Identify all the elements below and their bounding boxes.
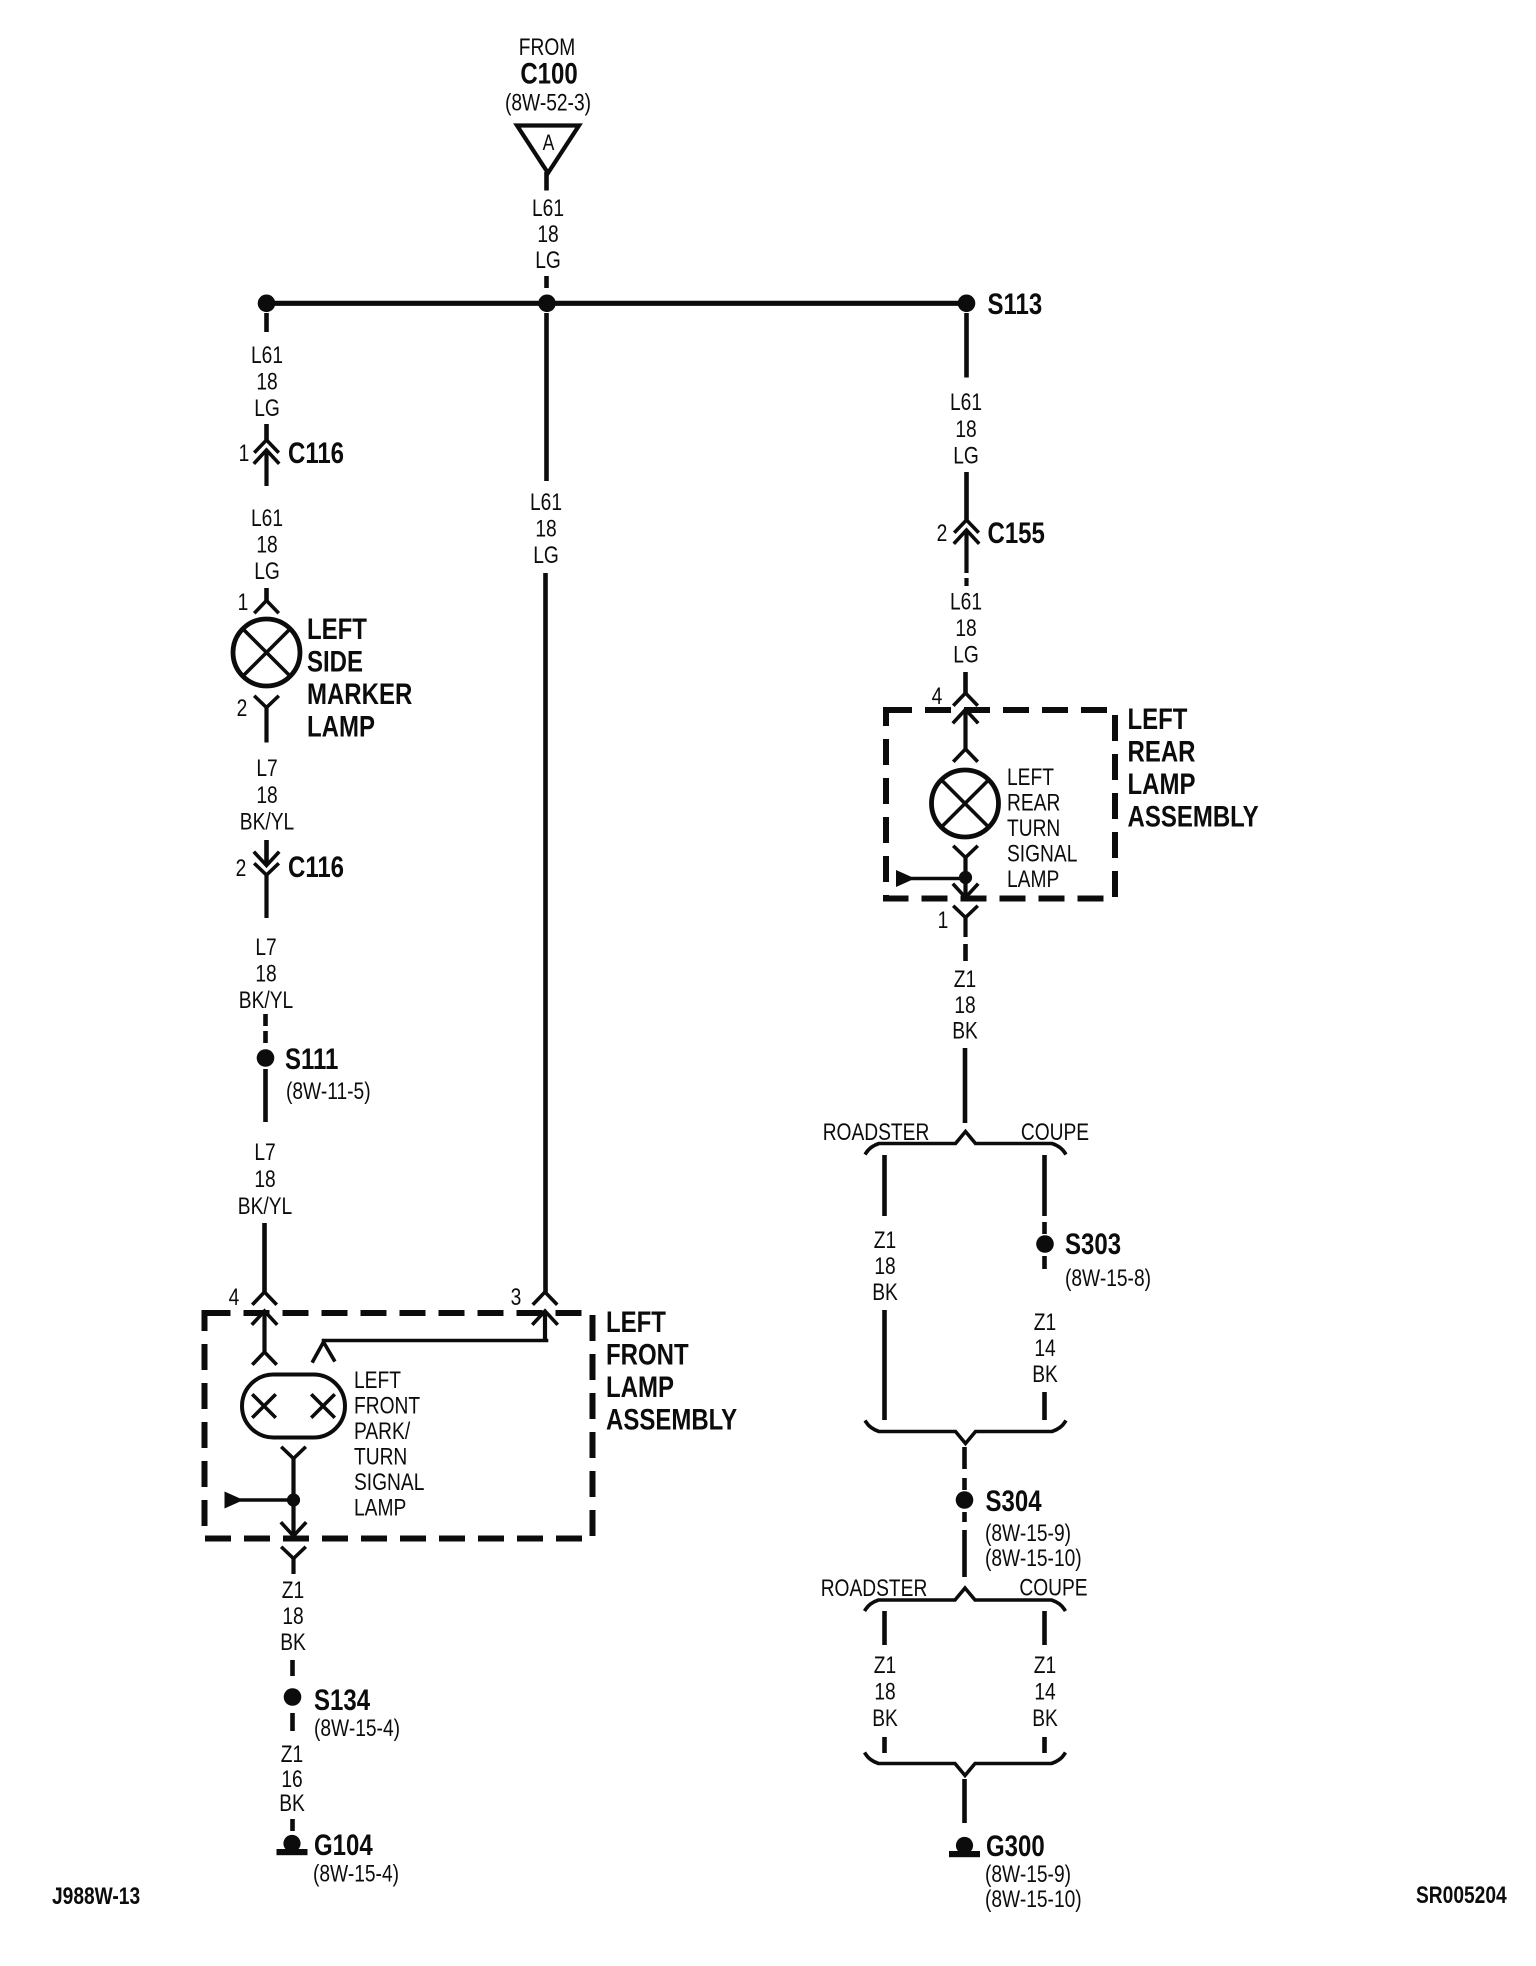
svg-text:S111: S111 [285,1041,338,1075]
svg-text:G300: G300 [986,1828,1045,1862]
ground G104 (8W-15-4) [277,1827,400,1887]
wire label Z1 18 BK (left) [280,1576,306,1656]
lamp - LEFT FRONT PARK/TURN SIGNAL LAMP (dual filament) [242,1375,345,1438]
svg-text:L61: L61 [950,587,982,615]
wire dash above splice S134 [290,1660,295,1676]
svg-text:(8W-15-9): (8W-15-9) [985,1860,1071,1888]
wire label L7 18 BK/YL (middle) [239,933,293,1014]
wire roadster branch lower segment [882,1310,887,1420]
svg-text:LEFT: LEFT [307,611,367,645]
wire below splice S111 [263,1069,268,1122]
label LEFT REAR TURN SIGNAL LAMP [1007,763,1077,893]
svg-text:18: 18 [874,1252,895,1280]
wire from merge to splice S304 [962,1447,967,1490]
wire label Z1 14 BK (coupe lower) [1032,1651,1058,1732]
ground arrow inside left front lamp assembly [225,1492,288,1509]
node - centre junction dot under C100 feed [538,295,556,313]
svg-text:A: A [543,131,555,155]
svg-text:(8W-15-4): (8W-15-4) [314,1714,400,1742]
svg-text:L61: L61 [530,488,562,516]
wire to left front lamp pin 4 [262,1223,267,1292]
svg-text:S303: S303 [1065,1226,1121,1260]
internal terminal fork below rear turn signal lamp [955,847,977,878]
svg-text:LG: LG [533,541,559,569]
svg-text:BK/YL: BK/YL [240,807,294,835]
svg-text:18: 18 [537,220,558,248]
svg-text:S134: S134 [314,1682,370,1716]
svg-text:(8W-11-5): (8W-11-5) [286,1077,371,1105]
svg-text:(8W-15-10): (8W-15-10) [985,1885,1082,1913]
svg-text:BK: BK [1032,1360,1058,1388]
svg-text:LAMP: LAMP [307,709,375,743]
wire dash above ground G104 [290,1819,295,1831]
wire stub below left node [264,313,269,332]
svg-text:BK/YL: BK/YL [238,1192,292,1220]
wire into connector C116 pin 1 [264,424,269,440]
svg-text:LG: LG [254,394,280,422]
wire - horizontal bus from left branch to S113 [267,301,967,306]
svg-text:G104: G104 [314,1827,373,1861]
svg-text:L7: L7 [255,933,276,961]
pin 4 terminal fork of left rear lamp assembly [932,682,977,710]
wire label L61 18 LG (right column upper) [950,388,982,469]
svg-text:18: 18 [254,1165,275,1193]
svg-text:LEFT: LEFT [354,1366,401,1394]
wire label Z1 14 BK (coupe upper) [1032,1308,1058,1388]
label ROADSTER (lower split) [821,1574,928,1602]
wire label L7 18 BK/YL (upper) [240,754,294,835]
wire from merge to ground G300 [962,1779,967,1823]
label ROADSTER (upper split) [823,1118,930,1146]
wire stub above bus node [544,276,549,288]
wire label L61 18 LG (left column upper) [251,341,283,422]
component box - LEFT REAR LAMP ASSEMBLY (dashed) [886,710,1115,899]
sheet code SR005204 [1416,1881,1507,1909]
wire leaving rear box with down arrow [954,878,977,898]
svg-text:SIGNAL: SIGNAL [1007,839,1077,867]
pin 4 arrow entering rear box and internal fork [954,710,977,761]
wire into connector C116 pin 2 [264,840,269,866]
svg-text:(8W-15-8): (8W-15-8) [1065,1264,1151,1292]
svg-text:BK: BK [1032,1704,1058,1732]
terminal fork below left front lamp assembly [283,1548,305,1574]
brace - upper merge [866,1422,1065,1444]
wire roadster branch (upper) [882,1155,887,1216]
svg-text:L61: L61 [251,341,283,369]
svg-text:L7: L7 [256,754,277,782]
svg-text:1: 1 [239,439,250,467]
svg-text:(8W-52-3): (8W-52-3) [505,88,591,116]
svg-text:LG: LG [953,441,979,469]
wire coupe branch lower segment [1042,1392,1047,1420]
svg-text:2: 2 [236,854,247,882]
svg-text:4: 4 [229,1283,240,1311]
svg-text:4: 4 [932,682,943,710]
svg-text:18: 18 [955,614,976,642]
svg-text:FRONT: FRONT [354,1391,420,1419]
svg-text:14: 14 [1034,1677,1055,1705]
svg-text:FRONT: FRONT [606,1337,689,1371]
brace - lower merge [866,1754,1065,1776]
wire dash below splice S134 [290,1713,295,1731]
svg-text:REAR: REAR [1007,788,1060,816]
connector C116 pin 2 (in-line, pointing down) [236,849,344,918]
wire coupe branch into merge [1042,1737,1047,1753]
splice S113 [958,286,1043,320]
svg-text:LG: LG [953,640,979,668]
svg-text:Z1: Z1 [874,1651,896,1679]
wire label L61 18 LG (top centre) [532,194,564,274]
svg-text:Z1: Z1 [874,1226,896,1254]
svg-text:1: 1 [938,906,949,934]
svg-text:1: 1 [238,588,249,616]
lamp - LEFT SIDE MARKER LAMP (circle with X) [233,619,300,686]
wire from centre node down to label [544,313,549,481]
svg-text:L61: L61 [950,388,982,416]
svg-text:18: 18 [954,991,975,1019]
internal wire from pin 3 to right filament [313,1341,547,1362]
wire roadster branch (lower) [882,1611,887,1645]
pin 3 terminal fork of left front lamp assembly [511,1283,556,1311]
brace - lower roadster/coupe split [866,1588,1065,1610]
wire label L61 18 LG (left column lower) [251,504,283,585]
connector C155 pin 2 (in-line, pointing up) [937,515,1045,586]
wire label Z1 18 BK (rear) [952,965,978,1044]
node - ground junction dot in left front lamp assembly [287,1493,300,1506]
svg-text:18: 18 [874,1677,895,1705]
splice S303 (8W-15-8) [1036,1226,1151,1291]
wire label L61 18 LG (centre column) [530,488,562,569]
svg-text:3: 3 [511,1283,522,1311]
svg-text:LAMP: LAMP [1128,766,1196,800]
svg-text:ASSEMBLY: ASSEMBLY [1128,799,1259,833]
svg-text:ROADSTER: ROADSTER [823,1118,930,1146]
label LEFT REAR LAMP ASSEMBLY [1128,701,1259,833]
svg-text:LEFT: LEFT [1007,763,1054,791]
svg-text:BK: BK [872,1704,898,1732]
connector C100 header (FROM C100 8W-52-3) [505,33,591,116]
svg-text:LAMP: LAMP [1007,865,1059,893]
svg-text:LG: LG [535,246,561,274]
ground G300 (8W-15-9)(8W-15-10) [949,1828,1082,1912]
wire to left rear lamp pin 4 [963,672,968,693]
svg-text:S304: S304 [986,1483,1042,1517]
splice S134 (8W-15-4) [284,1682,400,1741]
svg-text:(8W-15-4): (8W-15-4) [313,1859,399,1887]
svg-text:C116: C116 [288,435,344,469]
svg-text:(8W-15-9): (8W-15-9) [985,1519,1071,1547]
component box - LEFT FRONT LAMP ASSEMBLY (dashed) [205,1313,593,1539]
label COUPE (upper split) [1021,1118,1089,1146]
svg-text:ASSEMBLY: ASSEMBLY [606,1402,737,1436]
pin 4 arrow entering box and internal fork [253,1311,276,1364]
svg-text:REAR: REAR [1128,734,1196,768]
svg-text:LEFT: LEFT [606,1304,666,1338]
svg-text:C155: C155 [988,515,1045,549]
lamp - LEFT REAR TURN SIGNAL LAMP (circle with X) [932,770,999,837]
svg-text:LAMP: LAMP [354,1493,406,1521]
svg-text:BK: BK [952,1016,978,1044]
pin 3 arrow entering box [534,1311,557,1341]
brace - upper roadster/coupe split [866,1132,1065,1154]
svg-text:Z1: Z1 [1034,1308,1056,1336]
svg-text:18: 18 [955,415,976,443]
pin 2 terminal fork below side marker lamp [237,694,278,743]
wire leaving box with down arrow [282,1500,305,1536]
svg-text:LEFT: LEFT [1128,701,1188,735]
wire dashes above splice S111 [263,1014,268,1043]
wire to side marker lamp pin 1 [264,588,269,601]
pin 1 terminal fork below left rear lamp assembly [938,906,977,937]
wire label L61 18 LG (right column lower) [950,587,982,668]
wire below splice S304 [962,1512,967,1577]
label COUPE (lower split) [1019,1573,1087,1601]
svg-text:PARK/: PARK/ [354,1417,411,1445]
svg-text:C116: C116 [288,849,344,883]
svg-text:Z1: Z1 [282,1576,304,1604]
wire label Z1 18 BK (roadster lower) [872,1651,898,1732]
svg-text:L61: L61 [532,194,564,222]
wire label Z1 16 BK [279,1740,305,1817]
wire L61 from triangle A to splice node [544,172,549,191]
svg-text:BK/YL: BK/YL [239,986,293,1014]
wire below splice S113 [964,313,969,378]
svg-text:18: 18 [282,1602,303,1630]
svg-text:COUPE: COUPE [1019,1573,1087,1601]
splice S111 (8W-11-5) [257,1041,371,1104]
svg-text:LAMP: LAMP [606,1369,674,1403]
svg-text:S113: S113 [988,286,1043,320]
splice S304 (8W-15-9)(8W-15-10) [956,1483,1082,1571]
label LEFT FRONT PARK/ TURN SIGNAL LAMP [354,1366,424,1521]
wire label L7 18 BK/YL (lower) [238,1138,292,1220]
svg-text:TURN: TURN [1007,814,1060,842]
wire from centre label to left front lamp pin 3 [543,573,548,1292]
wire coupe branch (lower) [1042,1611,1047,1645]
svg-text:18: 18 [255,959,276,987]
wire coupe branch (upper) [1042,1155,1047,1234]
svg-text:18: 18 [256,367,277,395]
wire stub to Z1 label [963,944,968,961]
svg-text:2: 2 [937,519,948,547]
svg-text:ROADSTER: ROADSTER [821,1574,928,1602]
svg-text:Z1: Z1 [954,965,976,993]
node - ground junction dot in left rear lamp assembly [959,871,972,884]
svg-text:18: 18 [535,514,556,542]
svg-text:BK: BK [279,1789,305,1817]
svg-text:BK: BK [280,1628,306,1656]
svg-text:J988W-13: J988W-13 [52,1882,140,1910]
svg-text:TURN: TURN [354,1442,407,1470]
node - left branch junction dot [258,295,276,313]
wire roadster branch into merge [882,1737,887,1753]
svg-text:14: 14 [1034,1334,1055,1362]
wire down to roadster/coupe split [963,1048,968,1123]
svg-text:MARKER: MARKER [307,676,413,710]
svg-text:SIGNAL: SIGNAL [354,1468,424,1496]
svg-text:SR005204: SR005204 [1416,1881,1507,1909]
svg-text:18: 18 [256,530,277,558]
wire label Z1 18 BK (roadster upper) [872,1226,898,1306]
wire into connector C155 pin 2 [964,472,969,520]
sheet number J988W-13 [52,1882,140,1910]
svg-text:(8W-15-10): (8W-15-10) [985,1544,1082,1572]
pin 4 terminal fork of left front lamp assembly [229,1283,276,1311]
svg-text:BK: BK [872,1278,898,1306]
internal terminal fork below park/turn lamp [283,1448,305,1500]
svg-text:SIDE: SIDE [307,644,363,678]
svg-text:18: 18 [256,781,277,809]
label LEFT FRONT LAMP ASSEMBLY [606,1304,737,1436]
svg-text:L61: L61 [251,504,283,532]
svg-text:L7: L7 [254,1138,275,1166]
svg-text:Z1: Z1 [281,1740,303,1768]
svg-text:LG: LG [254,557,280,585]
svg-text:C100: C100 [520,56,577,90]
ground arrow inside left rear lamp assembly [896,870,959,887]
connector C116 pin 1 (in-line, pointing up) [239,435,344,486]
wire below splice S303 [1042,1256,1047,1269]
svg-text:Z1: Z1 [1034,1651,1056,1679]
svg-text:COUPE: COUPE [1021,1118,1089,1146]
label LEFT SIDE MARKER LAMP [307,611,413,743]
pin 1 terminal fork of side marker lamp [238,588,278,616]
off-page connector triangle A (from C100) [517,126,579,174]
svg-text:2: 2 [237,694,248,722]
